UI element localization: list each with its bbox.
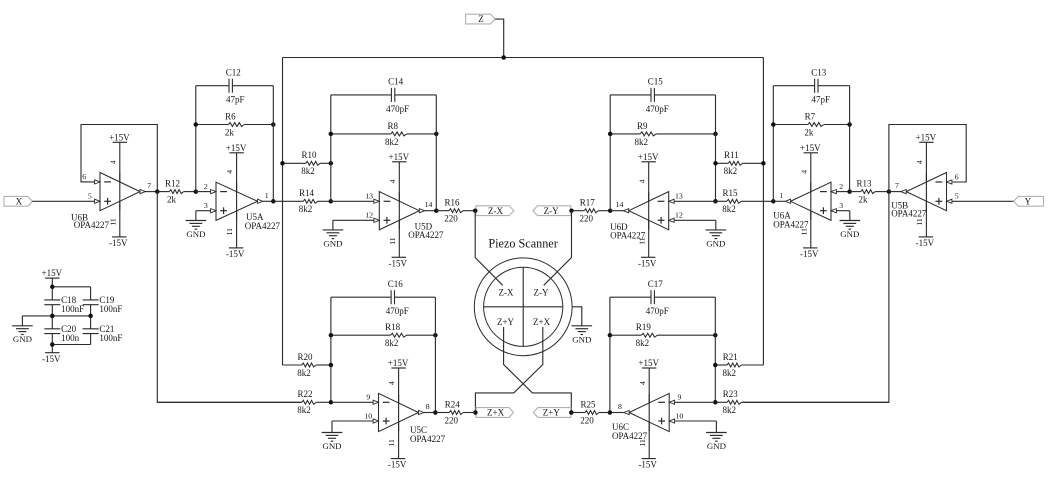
wire U5A feedback right vertical (272, 86, 274, 202)
svg-text:11: 11 (915, 218, 924, 226)
capacitor C16 (331, 279, 436, 316)
port Y (1014, 196, 1044, 206)
op-amp U6D (610, 152, 683, 269)
wire U6A feedback right vertical (849, 86, 851, 192)
svg-text:R7: R7 (805, 111, 816, 121)
svg-text:-15V: -15V (916, 238, 935, 248)
resistor R24 (435, 399, 475, 425)
svg-text:R19: R19 (636, 322, 652, 332)
port X (4, 196, 32, 206)
junction U5A pin2 node (194, 189, 199, 194)
svg-text:C16: C16 (388, 279, 404, 289)
svg-text:GND: GND (323, 238, 342, 248)
svg-text:4: 4 (388, 179, 397, 183)
port Z+X (476, 408, 513, 418)
resistor R22 (157, 389, 331, 415)
svg-text:OPA4227: OPA4227 (245, 221, 281, 231)
piezo scanner cross horizontal (484, 306, 563, 308)
svg-text:5: 5 (88, 192, 92, 201)
wire decoupling bottom row (52, 344, 90, 346)
wire U5A output (263, 200, 273, 202)
resistor R25 (571, 399, 610, 425)
wire U5A pin3 to ground (196, 210, 211, 212)
resistor R11 (716, 150, 764, 176)
svg-text:4: 4 (799, 170, 808, 174)
svg-text:R16: R16 (444, 198, 460, 208)
junction R19 right (713, 333, 718, 338)
svg-text:8k2: 8k2 (299, 204, 313, 214)
wire U6A pin3 to ground (836, 210, 849, 212)
svg-text:8k2: 8k2 (722, 204, 736, 214)
svg-text:47pF: 47pF (812, 95, 831, 105)
wire U6D feedback left vertical (609, 95, 611, 211)
svg-text:3: 3 (204, 201, 208, 210)
op-amp U5B (891, 132, 959, 248)
svg-text:OPA4227: OPA4227 (891, 209, 927, 219)
svg-text:R24: R24 (445, 399, 461, 409)
svg-text:Z-X: Z-X (499, 287, 514, 297)
svg-text:OPA4227: OPA4227 (74, 220, 110, 230)
junction R20 right (329, 363, 334, 368)
junction U5C pin9 node (329, 400, 334, 405)
op-amp U6A (773, 143, 843, 259)
svg-text:-15V: -15V (638, 258, 657, 268)
junction U6A pin2 node (847, 189, 852, 194)
svg-text:4: 4 (225, 170, 234, 174)
resistor R13 (850, 179, 889, 205)
wire U6C pin9 (675, 401, 716, 403)
svg-text:100nF: 100nF (61, 304, 84, 314)
wire Z bus right vertical (762, 58, 764, 366)
capacitor C13 (773, 67, 849, 104)
junction node Z-X (473, 208, 478, 213)
junction R10 left on bus (280, 161, 285, 166)
capacitor C18 (44, 295, 84, 314)
junction U6A output (771, 199, 776, 204)
svg-text:R25: R25 (580, 399, 596, 409)
resistor R19 (610, 322, 715, 348)
piezo quadrant label Z+Y (497, 317, 515, 327)
wire decoupling left column (51, 278, 53, 353)
svg-text:1: 1 (265, 191, 269, 200)
svg-text:Z+Y: Z+Y (497, 317, 515, 327)
svg-text:7: 7 (147, 181, 151, 190)
resistor R14 (273, 188, 331, 214)
svg-text:R20: R20 (297, 352, 313, 362)
svg-text:Z+X: Z+X (487, 408, 505, 418)
wire U6C feedback left vertical (609, 297, 611, 412)
wire U6D feedback right vertical (715, 95, 717, 201)
svg-text:OPA4227: OPA4227 (408, 230, 444, 240)
piezo scanner title (488, 236, 557, 250)
junction R11 right on bus (761, 161, 766, 166)
capacitor C14 (331, 77, 437, 114)
wire U5B pin5 to Y (952, 200, 1014, 202)
junction R11 left (713, 161, 718, 166)
svg-text:10: 10 (364, 411, 372, 420)
resistor R20 (283, 352, 331, 378)
svg-text:470pF: 470pF (386, 306, 409, 316)
power +15V decoupling (42, 268, 63, 278)
svg-text:OPA4227: OPA4227 (410, 434, 446, 444)
svg-text:8: 8 (426, 402, 430, 411)
svg-text:8k2: 8k2 (636, 338, 650, 348)
wire U6C pin10 to ground (675, 420, 717, 422)
svg-text:+15V: +15V (916, 132, 937, 142)
svg-text:8k2: 8k2 (301, 166, 315, 176)
svg-text:6: 6 (955, 172, 959, 181)
svg-text:8k2: 8k2 (385, 137, 399, 147)
capacitor C20 (44, 324, 79, 343)
svg-text:-15V: -15V (42, 354, 61, 364)
svg-text:14: 14 (425, 200, 433, 209)
junction R9 left (608, 132, 613, 137)
junction R18 left (329, 333, 334, 338)
svg-text:GND: GND (707, 441, 726, 451)
junction decoupling middle left (50, 314, 55, 319)
svg-text:100nF: 100nF (99, 333, 122, 343)
wire U5B output (889, 191, 901, 193)
junction U5D output (434, 208, 439, 213)
port Z-X (476, 206, 514, 216)
svg-text:9: 9 (677, 393, 681, 402)
op-amp U5A (204, 143, 281, 259)
svg-text:13: 13 (365, 192, 373, 201)
piezo scanner cross vertical (522, 267, 524, 346)
junction U5C output (433, 410, 438, 415)
svg-text:2k: 2k (859, 195, 869, 205)
ground U6C pin10 (706, 421, 727, 451)
junction node Z+Y (569, 410, 574, 415)
junction R21 left (713, 363, 718, 368)
svg-text:10: 10 (676, 411, 684, 420)
wire U5D pin12 to ground (333, 219, 374, 221)
junction U6C output (608, 410, 613, 415)
svg-text:470pF: 470pF (646, 306, 669, 316)
wire U5A feedback left vertical (195, 86, 197, 192)
junction node Z-Y (569, 208, 574, 213)
svg-text:R10: R10 (301, 150, 317, 160)
svg-text:8k2: 8k2 (297, 405, 311, 415)
svg-text:R17: R17 (580, 198, 596, 208)
resistor R17 (572, 198, 611, 224)
svg-text:+15V: +15V (42, 268, 63, 278)
junction R8 right (434, 132, 439, 137)
wire U6A pin2 (836, 191, 849, 193)
svg-text:8k2: 8k2 (634, 137, 648, 147)
svg-text:4: 4 (915, 160, 924, 164)
ground U5D pin12 (323, 220, 344, 248)
junction node Z+X (473, 410, 478, 415)
svg-text:OPA4227: OPA4227 (610, 230, 646, 240)
svg-text:-15V: -15V (109, 238, 128, 248)
wire U5C feedback right vertical (434, 297, 436, 412)
op-amp U6C (612, 358, 683, 470)
junction U5B output (887, 189, 892, 194)
capacitor C21 (83, 324, 123, 343)
svg-text:220: 220 (444, 214, 458, 224)
svg-text:9: 9 (366, 393, 370, 402)
junction R9 right (713, 132, 718, 137)
junction decoupling bottom (50, 342, 55, 347)
resistor R7 (773, 111, 849, 137)
wire U5C pin9 (331, 401, 373, 403)
svg-text:X: X (16, 196, 23, 206)
junction R18 right (433, 333, 438, 338)
svg-text:8: 8 (618, 402, 622, 411)
svg-text:R9: R9 (637, 121, 648, 131)
wire scanner shield to ground (572, 307, 582, 326)
piezo scanner inner circle (484, 267, 563, 346)
resistor R8 (331, 121, 437, 147)
junction U5D pin13 node (329, 199, 334, 204)
wire U5C output (424, 412, 436, 414)
svg-text:100n: 100n (61, 333, 80, 343)
svg-text:-15V: -15V (226, 249, 245, 259)
op-amp U5D (365, 152, 444, 269)
wire Z-X to scanner (475, 211, 503, 286)
svg-text:R22: R22 (297, 389, 312, 399)
svg-text:2k: 2k (167, 195, 177, 205)
svg-text:OPA4227: OPA4227 (773, 219, 809, 229)
svg-text:220: 220 (580, 415, 594, 425)
wire Z bus horizontal (283, 57, 764, 59)
wire U5D pin13 (331, 200, 374, 202)
svg-text:+15V: +15V (638, 358, 659, 368)
ground U5C pin10 (322, 421, 343, 451)
svg-text:11: 11 (388, 237, 397, 245)
junction R19 left (608, 333, 613, 338)
capacitor C17 (610, 279, 715, 316)
wire Z-Y to scanner (544, 211, 572, 286)
piezo quadrant label Z-Y (534, 287, 549, 297)
svg-text:100nF: 100nF (99, 304, 122, 314)
junction U6B output (155, 189, 160, 194)
wire scanner quadrant Z+Y to port Z+Y (504, 327, 572, 413)
svg-text:470pF: 470pF (646, 104, 669, 114)
svg-text:12: 12 (675, 211, 683, 220)
resistor R12 (157, 179, 196, 205)
svg-text:1: 1 (779, 191, 783, 200)
svg-text:R6: R6 (225, 111, 236, 121)
wire U5C feedback left vertical (330, 297, 332, 402)
junction decoupling top (50, 285, 55, 290)
svg-text:3: 3 (839, 201, 843, 210)
resistor R21 (715, 352, 763, 378)
svg-text:8k2: 8k2 (723, 405, 737, 415)
op-amp U6B (71, 132, 151, 248)
wire U6A output (773, 200, 785, 202)
ground U5A pin3 (186, 211, 207, 239)
wire decoupling top row (52, 286, 90, 288)
svg-text:2k: 2k (225, 127, 235, 137)
wire U6D pin13 (674, 200, 715, 202)
wire Z port to bus (495, 19, 504, 57)
capacitor C19 (83, 295, 123, 314)
wire U6B feedback pin6 (81, 125, 157, 192)
svg-text:+15V: +15V (226, 143, 247, 153)
junction decoupling middle right (88, 314, 93, 319)
svg-text:220: 220 (444, 415, 458, 425)
resistor R18 (331, 322, 436, 348)
svg-text:+15V: +15V (638, 152, 659, 162)
svg-text:R13: R13 (856, 179, 872, 189)
wire Z bus left vertical (282, 58, 284, 366)
resistor R16 (436, 198, 475, 224)
svg-text:-15V: -15V (389, 258, 408, 268)
svg-text:+15V: +15V (800, 143, 821, 153)
wire U5C pin10 to ground (332, 420, 373, 422)
wire U5B feedback pin6 (889, 125, 966, 192)
svg-text:8k2: 8k2 (724, 166, 738, 176)
svg-text:R14: R14 (299, 188, 315, 198)
piezo quadrant label Z+X (533, 317, 551, 327)
junction R6 left (194, 122, 199, 127)
svg-text:C17: C17 (648, 279, 664, 289)
resistor R15 (716, 188, 774, 214)
piezo quadrant label Z-X (499, 287, 514, 297)
svg-text:4: 4 (108, 160, 117, 164)
svg-text:C15: C15 (648, 77, 664, 87)
wire U5D feedback left vertical (330, 95, 332, 201)
wire scanner quadrant Z+X to port Z+X (475, 327, 542, 413)
junction U6C pin9 node (713, 400, 718, 405)
junction Z bus (501, 55, 506, 60)
port Z-Y (533, 206, 571, 216)
svg-text:Z+X: Z+X (533, 317, 551, 327)
svg-text:2k: 2k (804, 127, 814, 137)
capacitor C15 (610, 77, 715, 114)
ground U6D pin12 (706, 220, 727, 248)
resistor R23 (715, 389, 889, 415)
svg-text:GND: GND (322, 441, 341, 451)
wire U6C output (610, 412, 624, 414)
svg-text:4: 4 (387, 381, 396, 385)
wire U6B output (145, 191, 157, 193)
svg-text:-15V: -15V (800, 249, 819, 259)
svg-text:47pF: 47pF (226, 95, 245, 105)
port Z (466, 14, 496, 24)
wire U5B output down to R23 (742, 192, 889, 403)
resistor R6 (196, 111, 273, 137)
svg-text:4: 4 (637, 179, 646, 183)
svg-text:C14: C14 (388, 77, 404, 87)
svg-text:470pF: 470pF (386, 104, 409, 114)
svg-text:+15V: +15V (109, 132, 130, 142)
svg-text:8k2: 8k2 (297, 368, 311, 378)
junction R6 right (271, 122, 276, 127)
wire U5D output (425, 210, 437, 212)
svg-text:8k2: 8k2 (385, 338, 399, 348)
svg-text:R11: R11 (724, 150, 739, 160)
svg-text:C12: C12 (226, 67, 241, 77)
svg-text:Z: Z (478, 14, 484, 24)
svg-text:OPA4227: OPA4227 (612, 431, 648, 441)
svg-text:Z+Y: Z+Y (543, 408, 561, 418)
svg-text:220: 220 (579, 214, 593, 224)
junction U5A output (271, 199, 276, 204)
svg-text:GND: GND (706, 238, 725, 248)
wire decoupling right column (90, 287, 92, 345)
svg-text:R21: R21 (723, 352, 738, 362)
svg-text:GND: GND (572, 335, 591, 345)
svg-text:R8: R8 (388, 121, 399, 131)
svg-text:6: 6 (82, 172, 86, 181)
ground U6A pin3 (840, 211, 861, 239)
svg-text:14: 14 (616, 200, 624, 209)
wire U5D feedback right vertical (435, 95, 437, 211)
svg-text:+15V: +15V (389, 152, 410, 162)
svg-text:R15: R15 (722, 188, 738, 198)
svg-text:-15V: -15V (388, 460, 407, 470)
svg-text:5: 5 (955, 192, 959, 201)
svg-text:C13: C13 (811, 67, 827, 77)
svg-text:11: 11 (225, 228, 234, 236)
resistor R10 (283, 150, 331, 176)
svg-text:Z-Y: Z-Y (534, 287, 549, 297)
svg-text:8k2: 8k2 (723, 368, 737, 378)
junction R10 right (329, 161, 334, 166)
piezo scanner outer circle (474, 258, 572, 356)
svg-text:4: 4 (638, 381, 647, 385)
svg-text:12: 12 (365, 211, 373, 220)
svg-text:Y: Y (1025, 196, 1032, 206)
port Z+Y (533, 408, 571, 418)
svg-text:R18: R18 (385, 322, 401, 332)
junction U6D output (608, 208, 613, 213)
svg-text:13: 13 (675, 192, 683, 201)
wire U6D output (610, 210, 623, 212)
wire X to U6B pin5 (32, 200, 94, 202)
wire U6C feedback right vertical (714, 297, 716, 402)
svg-text:11: 11 (387, 439, 396, 447)
wire U6A feedback left vertical (772, 86, 774, 202)
wire decoupling middle row (22, 315, 90, 317)
junction U6D pin13 node (713, 199, 718, 204)
power -15V decoupling (42, 353, 61, 364)
svg-text:7: 7 (895, 181, 899, 190)
wire U6D pin12 to ground (674, 219, 716, 221)
capacitor C12 (196, 67, 273, 104)
wire U6B output down to R22 (157, 192, 301, 403)
junction R7 right (847, 122, 852, 127)
resistor R9 (610, 121, 715, 147)
junction R7 left (771, 122, 776, 127)
svg-text:Z-Y: Z-Y (544, 206, 559, 216)
svg-text:Piezo Scanner: Piezo Scanner (488, 236, 557, 250)
wire U5A pin2 (196, 191, 211, 193)
svg-text:R23: R23 (723, 389, 739, 399)
ground decoupling (12, 316, 33, 344)
svg-text:Z-X: Z-X (488, 206, 503, 216)
svg-text:2: 2 (839, 182, 843, 191)
svg-text:R12: R12 (165, 179, 180, 189)
svg-text:GND: GND (186, 229, 205, 239)
ground piezo scanner (572, 326, 593, 345)
svg-text:+15V: +15V (388, 358, 409, 368)
op-amp U5C (364, 358, 445, 470)
svg-text:-15V: -15V (638, 460, 657, 470)
svg-text:GND: GND (840, 229, 859, 239)
svg-text:GND: GND (13, 334, 32, 344)
svg-text:11: 11 (108, 218, 117, 226)
svg-text:2: 2 (204, 182, 208, 191)
junction R8 left (329, 132, 334, 137)
